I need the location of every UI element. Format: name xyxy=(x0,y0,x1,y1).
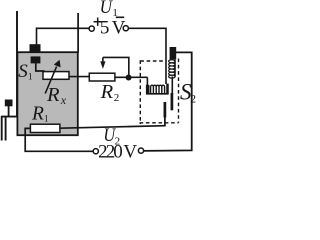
R2 wiper arrow xyxy=(102,57,104,63)
resistor R2 xyxy=(89,73,115,81)
wire: long left vertical xyxy=(16,11,18,117)
switch S1 lead xyxy=(36,63,45,71)
wire: U1 minus lead xyxy=(128,28,166,84)
wire: corner down to coil xyxy=(146,77,148,87)
minus sign xyxy=(116,16,124,18)
svg-text:S: S xyxy=(18,61,28,82)
svg-text:2: 2 xyxy=(114,92,120,104)
wire: 220V right to relay xyxy=(144,52,192,150)
svg-text:1: 1 xyxy=(44,114,49,124)
wire: box right corner vertical (crosses + lead) xyxy=(77,13,79,53)
Rx arrow xyxy=(45,67,56,94)
220V supply terminals xyxy=(93,149,98,154)
black box (gray apparatus box) xyxy=(17,52,77,135)
wire: U1 plus lead (top horizontal) xyxy=(37,27,90,29)
resistor R1 xyxy=(30,124,60,132)
svg-text:R: R xyxy=(46,84,60,106)
svg-text:R: R xyxy=(31,104,44,125)
resistor Rx (variable) xyxy=(43,72,69,80)
U1 supply terminals xyxy=(89,26,94,31)
switch S2 left contact xyxy=(164,102,167,118)
wire: corner down to box terminal xyxy=(36,28,38,45)
wire: Rx to R2 xyxy=(69,76,90,78)
wire: left prong B xyxy=(5,116,7,141)
plus sign xyxy=(94,18,102,26)
wire: spring lead down xyxy=(171,77,173,95)
wire: left T-bar xyxy=(1,116,18,118)
terminal square on box top xyxy=(30,44,41,51)
electromagnet coil (horizontal) xyxy=(146,84,169,94)
dashed relay box xyxy=(140,59,179,125)
svg-text:x: x xyxy=(60,93,67,107)
wire: R1 right lead to S2 xyxy=(60,126,166,129)
wire: R2 right lead to coil corner xyxy=(115,76,147,78)
switch S2 right contact xyxy=(171,93,174,110)
svg-text:5 V: 5 V xyxy=(100,17,126,38)
svg-text:U: U xyxy=(100,0,114,18)
spring (S2 return spring) xyxy=(169,60,176,79)
switch S1 knob square xyxy=(31,56,41,63)
wire: left prong A xyxy=(1,116,3,141)
wire: R1 left lead, corner down, to 220V left terminal xyxy=(25,128,93,151)
relay armature core (black) xyxy=(170,47,177,59)
junction node dot xyxy=(126,75,132,81)
R2 wiper loop wire xyxy=(103,57,129,76)
svg-text:220 V: 220 V xyxy=(98,141,137,159)
svg-text:R: R xyxy=(100,81,114,103)
terminal square T1 (left plug) xyxy=(5,100,13,107)
svg-text:1: 1 xyxy=(28,72,33,82)
